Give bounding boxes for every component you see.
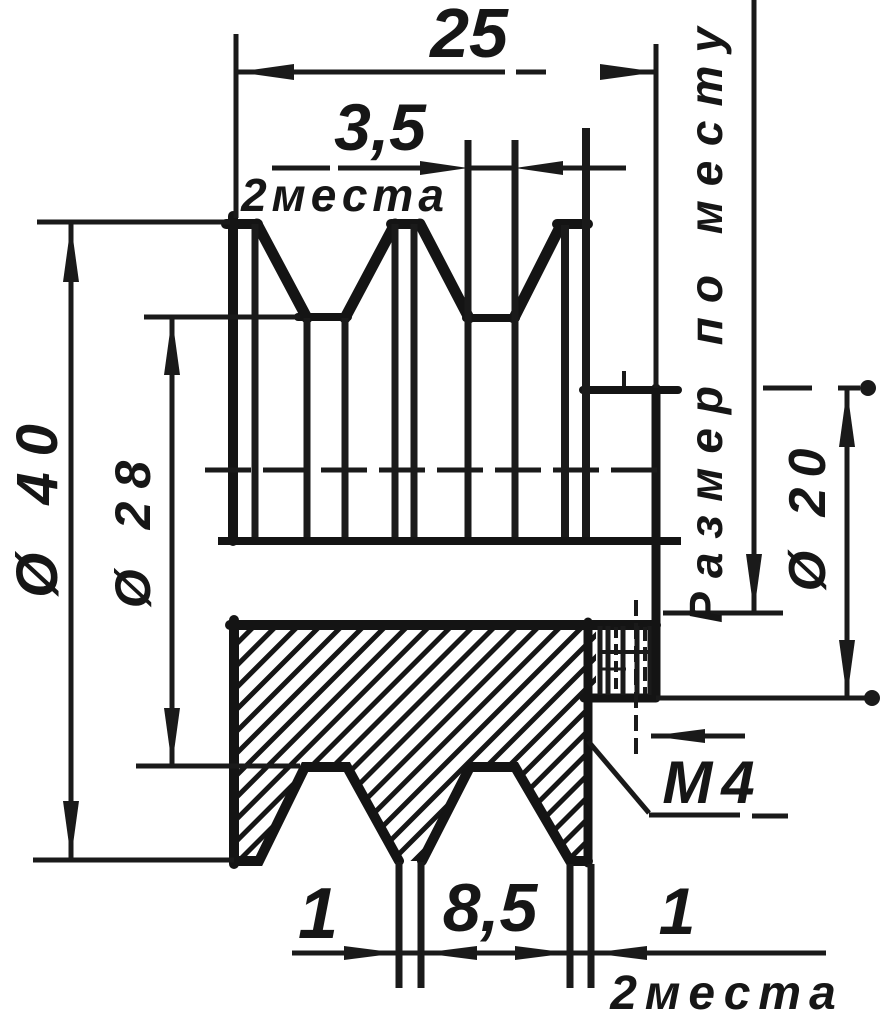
right rim top — [557, 219, 588, 229]
M4 thread profile lines — [598, 626, 650, 695]
hub end face — [652, 388, 661, 697]
dimension O40: top arrowhead — [63, 224, 79, 282]
svg-text:Размер по месту: Размер по месту — [680, 13, 732, 623]
bottom dimensions: dimension line — [292, 951, 826, 956]
hub outer surface (top, O20) — [583, 386, 678, 394]
left end face — [228, 216, 238, 541]
bottom dimension 8,5: left arrowhead — [422, 946, 477, 960]
groove 1 left flank — [257, 224, 307, 318]
M4 label: pointer line — [651, 734, 745, 739]
rim bottom and groove V profile, right part — [422, 767, 588, 861]
groove 1 bottom flat (O28) — [298, 313, 348, 321]
svg-text:1: 1 — [298, 874, 338, 954]
dimension O20: top tick line — [763, 386, 812, 391]
rim bottom and groove V profile, left part — [234, 767, 399, 861]
bottom dimension 1 (left): arrowhead — [344, 946, 399, 960]
groove 1 right flank — [345, 224, 395, 318]
dimension 3,5: right arrowhead — [515, 161, 563, 175]
dimension O40: top tick line — [37, 220, 230, 225]
dimension "size to fit": dimension line — [752, 0, 757, 612]
svg-text:1: 1 — [659, 874, 696, 948]
dimension 25: extension line right (hub end) — [654, 44, 659, 388]
dimension O20: dimension line — [845, 389, 850, 698]
dimension "size to fit": arrowhead — [746, 554, 762, 612]
svg-text:Ø 28: Ø 28 — [105, 448, 161, 608]
groove 2 left flank — [420, 224, 469, 318]
dimension O20: bottom arrowhead — [839, 640, 855, 698]
lower edge of upper-half view (axis level) — [218, 537, 681, 545]
upper-half external profile of pulley — [226, 216, 678, 697]
right rim outer edge + extension — [582, 128, 590, 541]
dimension O28: bottom arrowhead — [164, 708, 180, 766]
groove 1 flat right edge — [342, 318, 349, 541]
dimension O40: bottom tick line — [33, 858, 234, 863]
bottom dimension 8,5: right arrowhead — [515, 946, 570, 960]
hub outer surface (bottom) — [584, 694, 656, 703]
svg-text:2места: 2места — [240, 169, 449, 221]
dimension 25: dimension line — [237, 70, 657, 75]
M4 label: underline dash — [752, 814, 788, 819]
groove 1 flat left edge — [304, 318, 311, 541]
dimension O40: dimension line — [69, 224, 74, 859]
groove 2 flat left edge + 3,5 extension — [465, 140, 472, 541]
svg-text:8,5: 8,5 — [443, 870, 539, 946]
bottom dimension 1 (right): arrowhead — [591, 946, 647, 960]
dimension O40: bottom arrowhead — [63, 801, 79, 859]
groove 2 bottom flat (O28) — [466, 314, 516, 322]
svg-text:Ø 40: Ø 40 — [5, 408, 70, 598]
svg-text:М4: М4 — [662, 749, 763, 816]
dimension O20: bottom tick line (hub surface extended) — [656, 696, 866, 701]
M4 hole axis stub above hub — [622, 371, 626, 392]
M4 label: underline — [649, 813, 740, 818]
groove 2 flat right edge + 3,5 extension — [512, 140, 519, 541]
bottom dimensions 1 / 8,5 / 1: extension lines — [399, 862, 591, 988]
dimension O20: top end dot — [860, 380, 876, 396]
dimension O28: dimension line — [170, 317, 175, 766]
middle rim top — [391, 219, 419, 229]
dimension O28: tick line at groove bottom level (top) — [144, 315, 300, 320]
M4 label: bent leader line — [588, 741, 649, 813]
dimension O28: tick line at groove bottom level (bottom) — [136, 764, 300, 769]
dimension O20: bottom end dot — [864, 690, 880, 706]
dimension 25: left arrowhead — [237, 64, 294, 80]
right face of disk — [584, 622, 593, 863]
bore surface edge — [230, 620, 656, 630]
M4 hole axis (dash-dot) — [634, 600, 638, 757]
middle rim left edge — [392, 224, 399, 541]
groove 2 right flank — [514, 225, 561, 318]
M4 label: arrowhead — [651, 729, 705, 743]
M4 threaded hole zone (blank under thread lines) — [596, 627, 653, 696]
svg-text:25: 25 — [428, 0, 509, 72]
svg-text:3,5: 3,5 — [334, 90, 427, 164]
dimension 3,5: dimension line — [272, 166, 626, 171]
section outline of lower half — [230, 620, 656, 864]
svg-text:2места: 2места — [609, 967, 844, 1017]
dimension 25: extension line left — [234, 34, 239, 218]
middle rim right edge — [411, 224, 418, 541]
dimension 3,5: left arrowhead — [420, 161, 468, 175]
groove edge lines in side view — [255, 128, 586, 541]
left rim inner edge — [252, 224, 259, 541]
pulley lower-half cross-section body (hatched disk with two V-grooves and hub) — [234, 625, 655, 861]
pulley axis centerline (dash-dot) — [205, 468, 658, 473]
dimension "size to fit": tick line — [663, 611, 783, 616]
svg-text:Ø 20: Ø 20 — [779, 439, 837, 592]
right rim inner edge — [561, 225, 569, 541]
dimension O20: top arrowhead — [839, 389, 855, 447]
dimension 25: right arrowhead — [600, 64, 657, 80]
left end face edge — [229, 620, 239, 864]
dimension O28: top arrowhead — [164, 317, 180, 375]
left rim top (O40) — [226, 219, 258, 229]
